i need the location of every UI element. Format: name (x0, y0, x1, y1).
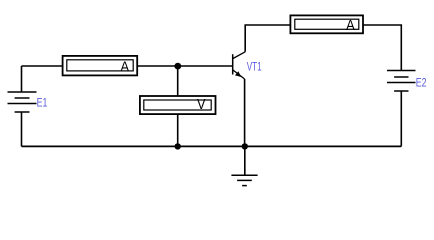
wire top-left horizontal from E1 top to ammeter A1 (22, 65, 63, 67)
svg-text:VT1: VT1 (247, 60, 262, 74)
node junction dot emitter-rail (242, 143, 248, 149)
emitter lead down to bottom rail (244, 79, 246, 146)
node junction dot bottom (voltmeter-rail) (175, 143, 181, 149)
wire from rail down to ground (244, 146, 246, 175)
wire from voltmeter down to bottom rail (177, 114, 179, 146)
svg-text:A: A (120, 59, 129, 76)
bottom rail wire (22, 145, 402, 147)
voltmeter V (140, 96, 216, 114)
wire left vertical from top wire down to battery E1 (21, 66, 23, 92)
collector diagonal (233, 52, 245, 59)
wire from A2 to battery E2 (363, 25, 401, 70)
wire from battery E2 down to bottom rail (400, 92, 402, 147)
emitter diagonal (233, 70, 245, 79)
ground (231, 175, 257, 185)
wire from A1 to transistor base (137, 65, 232, 67)
ammeter A2 (290, 15, 363, 33)
wire left vertical from battery E1 down to bottom rail (21, 113, 23, 147)
transistor VT1 (233, 52, 246, 79)
collector lead up and over to ammeter A2 (245, 25, 290, 52)
emitter arrowhead (235, 71, 241, 77)
base bar (232, 54, 234, 74)
svg-text:E1: E1 (37, 96, 48, 110)
battery E2 (387, 71, 416, 92)
svg-text:V: V (197, 96, 206, 113)
svg-text:E2: E2 (416, 76, 427, 90)
ammeter A1 (63, 56, 138, 76)
svg-text:A: A (346, 17, 355, 34)
battery E1 (8, 92, 37, 112)
node junction dot top (base node) (174, 63, 181, 70)
wire from base node down to voltmeter (177, 66, 179, 96)
